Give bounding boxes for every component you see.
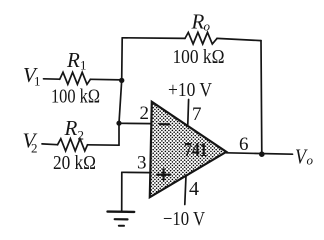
- svg-text:3: 3: [137, 153, 147, 174]
- svg-text:7: 7: [192, 104, 202, 125]
- svg-text:+10 V: +10 V: [168, 79, 212, 101]
- node output junction: [259, 151, 265, 157]
- svg-text:R: R: [191, 10, 205, 34]
- op-amp minus input marking: [160, 123, 169, 125]
- wire pin 7: [187, 100, 190, 125]
- label Vo: [295, 145, 314, 169]
- wire ground drop: [121, 172, 123, 211]
- node B junction: [116, 121, 121, 126]
- svg-text:−10 V: −10 V: [163, 208, 205, 230]
- svg-text:4: 4: [189, 178, 199, 200]
- svg-text:6: 6: [239, 134, 249, 155]
- svg-text:2: 2: [78, 128, 85, 143]
- svg-text:o: o: [204, 19, 211, 34]
- svg-text:1: 1: [34, 74, 41, 89]
- op-amp plus input marking: [157, 169, 170, 179]
- resistor Ro: [185, 32, 217, 44]
- op-amp U1 741 triangle: [150, 102, 227, 197]
- label Ro: [191, 10, 211, 34]
- svg-text:1: 1: [80, 58, 87, 73]
- label V1: [23, 63, 41, 89]
- svg-text:741: 741: [184, 139, 208, 161]
- label R2: [64, 116, 85, 143]
- wire feedback riser: [121, 38, 124, 81]
- label R1: [66, 48, 87, 73]
- node A junction: [119, 78, 124, 83]
- svg-text:R: R: [64, 116, 78, 140]
- svg-text:100 kΩ: 100 kΩ: [173, 46, 225, 68]
- svg-text:100 kΩ: 100 kΩ: [51, 86, 100, 108]
- svg-text:20 kΩ: 20 kΩ: [53, 152, 96, 174]
- resistor R1: [60, 72, 91, 84]
- wire R2 to riser corner: [88, 144, 120, 146]
- label V2: [23, 129, 38, 156]
- wire V2 lead: [42, 143, 58, 146]
- svg-text:2: 2: [140, 103, 150, 124]
- wire node A down to node B: [119, 80, 122, 123]
- wire feedback top left segment: [122, 37, 185, 40]
- wire Ro to right corner: [217, 38, 261, 40]
- wire pin 4: [185, 175, 186, 204]
- wire pin 3: [122, 171, 151, 173]
- svg-text:2: 2: [31, 141, 38, 156]
- ground: [108, 212, 135, 226]
- svg-text:o: o: [307, 153, 314, 168]
- svg-text:R: R: [66, 48, 80, 72]
- wire right vertical drop: [260, 41, 263, 154]
- wire output: [226, 153, 292, 154]
- resistor R2: [58, 139, 88, 151]
- wire pin 2: [119, 122, 152, 124]
- wire R1 to node A: [90, 78, 121, 81]
- wire V2 riser to node B: [118, 123, 120, 145]
- wire V1 lead: [44, 78, 60, 80]
